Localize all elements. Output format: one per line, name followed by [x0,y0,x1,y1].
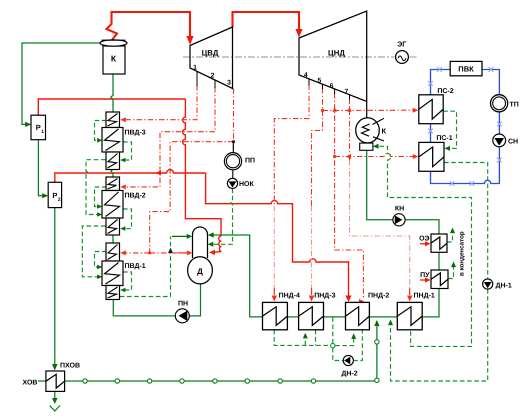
drains PND-4/PND-3 and DN-2 pump network [274,317,362,361]
wire: main condensate line through PND heaters to deaerator [211,235,397,317]
svg-text:КН: КН [395,206,404,213]
svg-text:ОЭ: ОЭ [419,236,429,243]
boiler K [100,40,127,74]
svg-text:в конденсатор: в конденсатор [459,231,466,276]
condenser K [366,102,368,119]
HP turbine CVD [190,27,233,89]
svg-text:Д: Д [197,267,203,276]
wire: HP turbine exhaust to LP turbine [233,12,300,31]
drain loop PVD-2 top [95,187,107,207]
svg-text:ПВК: ПВК [458,65,474,74]
drain PS-1 via DN-1 pump into condensate line [391,163,488,382]
wire: network water PVK-PS2-PS1 loop [431,70,500,184]
x marks on network line [428,67,502,186]
shaft axis centerline [183,56,417,58]
svg-text:ПХОВ: ПХОВ [60,363,80,370]
steam stub into PU cooler [420,279,427,281]
svg-text:1: 1 [193,64,197,71]
PS-1 network heater [419,142,444,171]
PS-2 network heater [419,95,443,124]
ПНД-3 heater [299,302,324,329]
wire: condensate from hotwell to KN pump and OE/PU coolers [367,150,439,317]
svg-text:4: 4 [304,72,308,79]
drain cascade PVD-3 to PVD-2 [86,160,106,215]
P1 expander [31,115,46,140]
drain PU cooler to condenser [448,266,454,279]
svg-text:ТП: ТП [510,102,519,109]
svg-text:Р: Р [52,191,57,200]
drain loop PVD-3 right [123,142,132,160]
KN condensate pump [393,214,405,226]
svg-text:7: 7 [345,89,349,96]
wire: red steam line to PND-2 [206,173,349,297]
wire: main steam, boiler K to HP turbine [107,12,191,40]
DN-2 drain pump [343,355,353,365]
svg-text:ХОВ: ХОВ [23,380,38,387]
SN network pump [493,134,506,147]
wire: P2 down to PHOV [54,208,56,365]
svg-text:2: 2 [211,72,215,79]
steam stub into OE cooler [420,243,427,245]
svg-text:ЦНД: ЦНД [328,48,345,57]
svg-text:6: 6 [330,83,334,90]
svg-text:ПНД-4: ПНД-4 [279,293,300,300]
deaerator D [193,227,208,258]
svg-text:ДН-2: ДН-2 [341,371,357,378]
NOK pump [232,170,234,179]
svg-text:НОК: НОК [239,181,255,188]
drain PVD-1 to deaerator [120,236,171,296]
ПВД-1 heater [102,243,123,300]
svg-text:1: 1 [41,129,44,135]
ПВД-2 heater [102,177,123,235]
wire: extraction 5 to PND-3 and PS-2 heater [312,88,323,206]
svg-text:ПН: ПН [178,300,188,307]
drain loop PVD-2 right [123,209,132,229]
svg-text:ПС-1: ПС-1 [436,135,452,142]
svg-text:К: К [111,54,117,64]
svg-text:2: 2 [58,197,61,203]
svg-text:ЦВД: ЦВД [202,48,219,57]
drain loop PVD-1 top [95,252,107,268]
wire: extraction 4 to PND-4 [274,85,309,207]
drain cascade PVD-2 to PVD-1 [82,226,105,277]
wire: feedwater chain boiler/PVD-3/PVD-2/PVD-1 [111,74,201,316]
svg-text:ПВД-1: ПВД-1 [125,263,146,270]
LP turbine CND [299,11,367,102]
wire: steam to PS-1 [335,153,415,156]
PVK peak boiler [450,61,482,75]
svg-text:ПНД-2: ПНД-2 [368,293,389,300]
PP drive turbine [232,142,234,153]
extraction number ticks [197,72,350,100]
flow arrow on PVD-1 drain riser [168,248,173,253]
PHOV raw water heater [46,371,65,391]
wire: PHOV drain to waste [54,391,56,399]
PN feed pump [175,309,189,323]
wire: extraction 3 to deaerator and PVD-1, feed of PP turbine [124,89,234,253]
svg-text:ДН-1: ДН-1 [496,283,512,290]
drain NOK pump to deaerator [212,189,233,245]
PVD-3 heater [102,112,123,170]
svg-text:3: 3 [227,80,231,87]
svg-text:Р: Р [36,123,41,132]
wire: red steam line y=99 into P1 [38,99,185,115]
wire: extraction 7 to PND-1 [349,99,351,161]
wire: steam to PS-2 [323,109,415,111]
wire: extraction 2 to PVD-2 [124,87,215,187]
svg-text:ПП: ПП [245,158,255,165]
DN-1 drain pump [483,279,493,289]
drain OE cooler to condenser [447,232,453,242]
svg-text:ПУ: ПУ [420,272,430,279]
TP network consumer [491,95,508,112]
svg-text:ПС-2: ПС-2 [437,88,453,95]
wire: extraction 6 to PND-2 and PS-1 [335,93,364,299]
flow arrow left on y=173 [156,171,162,176]
wire: extraction 1 to PVD-3 [124,85,197,120]
wire: red steam line y=173 with P2 riser [55,99,222,253]
svg-text:СН: СН [508,139,518,146]
ПНД-2 heater [346,302,370,329]
svg-text:К: К [382,127,387,136]
generator EG [396,51,409,64]
P2 expander [48,182,61,207]
wire: boiler blowdown to P1 expander [22,43,100,124]
wire: P1 to P2 [38,140,44,196]
svg-text:ЭГ: ЭГ [397,40,406,49]
drain PS-2 to PS-1 [443,111,456,148]
drain loop PVD-3 top [95,121,107,141]
PND-4 heater [263,302,288,329]
svg-text:ПНД-3: ПНД-3 [314,293,335,300]
svg-text:ПВД-3: ПВД-3 [125,130,146,137]
svg-text:ПНД-1: ПНД-1 [414,293,435,300]
svg-text:ПВД-2: ПВД-2 [125,193,146,200]
wire: treated water HOV long line with flow meters [38,321,377,381]
drain PND-1 to condenser hotwell [377,146,472,346]
drain loop PVD-1 right [123,272,132,290]
PU gland steam cooler [431,270,448,289]
OE ejector cooler [431,234,447,252]
arrow: heating steam into deaerator right side [209,250,215,255]
ПНД-1 heater [397,302,422,329]
svg-text:5: 5 [318,78,322,85]
